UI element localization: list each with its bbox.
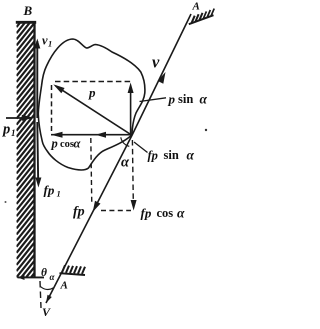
- svg-text:fp: fp: [44, 183, 55, 198]
- horizontal component line with p cos(alpha) arrow: [51, 132, 132, 138]
- svg-text:cos: cos: [157, 206, 174, 220]
- svg-text:θ: θ: [41, 267, 47, 279]
- svg-text:A: A: [60, 280, 68, 292]
- dashed drop line from fp sin tip: [91, 138, 92, 205]
- svg-text:α: α: [200, 92, 208, 107]
- vector v1 (up along wall): [34, 39, 40, 119]
- svg-text:A: A: [192, 1, 200, 13]
- svg-text:1: 1: [11, 128, 16, 138]
- svg-text:α: α: [50, 272, 56, 282]
- wall B (hatched): [16, 0, 44, 308]
- angle theta arc at bottom: [41, 287, 54, 290]
- svg-text:fp: fp: [73, 205, 85, 220]
- svg-text:1: 1: [57, 189, 61, 199]
- vector v arrowhead on rod: [158, 72, 166, 84]
- body outline (irregular blob): [38, 39, 145, 170]
- svg-text:α: α: [177, 206, 185, 221]
- svg-text:p: p: [88, 85, 96, 100]
- svg-text:B: B: [23, 3, 33, 18]
- svg-text:sin: sin: [178, 92, 193, 106]
- svg-text:p: p: [1, 122, 10, 138]
- svg-text:p: p: [51, 137, 58, 151]
- svg-text:sin: sin: [164, 148, 179, 162]
- svg-text:fp: fp: [148, 149, 158, 163]
- vector fp arrowhead on rod: [93, 201, 101, 212]
- vector p sin(alpha) (vertical up): [128, 83, 134, 136]
- svg-text:α: α: [187, 148, 195, 163]
- svg-text:α: α: [121, 155, 130, 171]
- stray print dot: [205, 129, 207, 131]
- svg-text:1: 1: [48, 39, 52, 49]
- svg-text:cos: cos: [60, 139, 74, 150]
- svg-text:fp: fp: [141, 206, 152, 221]
- dashed projection rectangle top edge: [55, 81, 131, 83]
- fp sin(alpha) arrowhead (left, on same line): [96, 132, 107, 138]
- dashed vertical below wall corner: [40, 281, 41, 308]
- rod line A-A lower segment: [46, 136, 132, 304]
- vector p (diagonal): [53, 84, 131, 135]
- hatched support at bottom A: [60, 265, 86, 275]
- fp cos(alpha) dashed vertical with down arrow: [131, 140, 137, 211]
- dashed horizontal at fp tip: [101, 210, 131, 212]
- vector p1 (horizontal into wall): [6, 115, 34, 121]
- arrowhead V at rod bottom end: [46, 295, 52, 303]
- leader line to p sin label: [140, 98, 167, 102]
- hatched support at top A: [189, 9, 214, 25]
- svg-text:v: v: [152, 53, 160, 72]
- stray print dot 2: [5, 201, 7, 203]
- svg-text:α: α: [74, 137, 82, 151]
- angle alpha arc at contact point: [121, 137, 130, 146]
- leader line to fp sin label: [134, 142, 148, 153]
- dashed projection rectangle left edge: [51, 85, 53, 134]
- rod line A-A upper segment: [132, 14, 191, 136]
- svg-text:V: V: [42, 305, 51, 319]
- svg-text:p: p: [168, 92, 176, 107]
- vector fp1 (down along wall): [35, 122, 41, 188]
